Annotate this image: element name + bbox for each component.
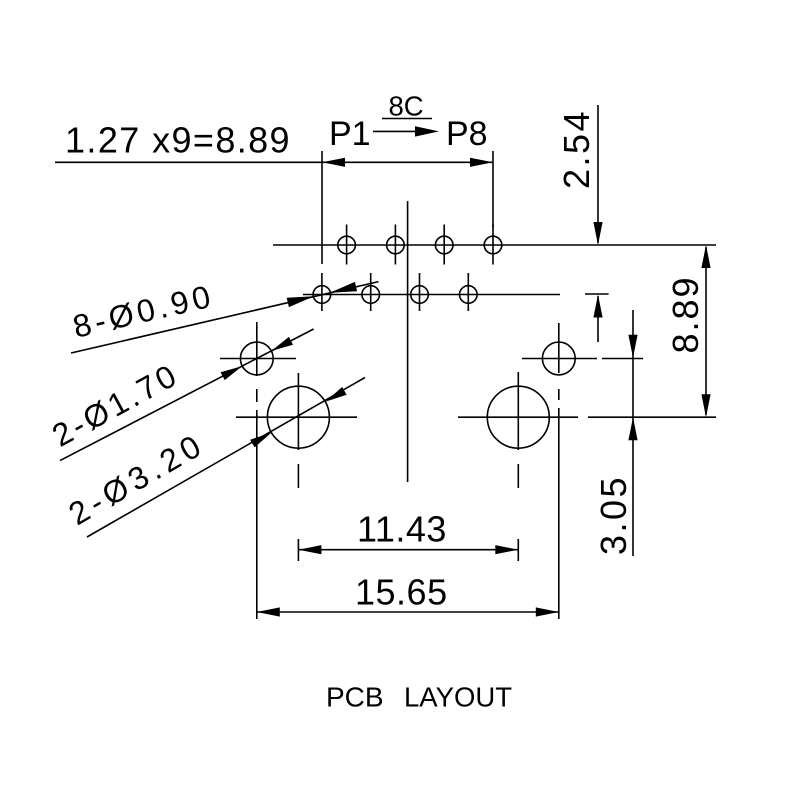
leader arrows at pin hole	[287, 282, 357, 307]
svg-text:8C: 8C	[389, 91, 424, 122]
underline 8C	[382, 118, 432, 120]
centerline left 1.70 hole vertical	[256, 322, 258, 619]
centerline right 1.70 hole vertical	[558, 323, 560, 619]
svg-text:1.27 x9=8.89: 1.27 x9=8.89	[65, 120, 291, 161]
hole P1 (0.90mm, bottom row)	[313, 273, 331, 311]
centerline 1.70mm holes left	[220, 358, 296, 360]
dimension line 1.27x9=8.89	[55, 158, 493, 167]
svg-text:LAYOUT: LAYOUT	[404, 682, 512, 713]
svg-text:P1: P1	[329, 115, 371, 153]
dimension line 3.05	[628, 310, 637, 556]
leader line 2-dia3.20	[87, 378, 365, 538]
svg-text:8.89: 8.89	[665, 275, 706, 353]
hole P7 (0.90mm, bottom row)	[460, 273, 478, 311]
hole right 1.70mm	[542, 342, 575, 375]
leader line 8-dia0.90	[71, 282, 379, 353]
hole P2 (0.90mm, top row)	[338, 225, 356, 265]
hole P6 (0.90mm, top row)	[435, 225, 453, 265]
svg-text:15.65: 15.65	[355, 572, 448, 613]
extension line P1 column	[321, 151, 323, 264]
dimension line 15.65	[257, 607, 559, 616]
hole left 3.20mm	[267, 386, 329, 448]
arrow P1 to P8	[373, 126, 439, 136]
centerline top pin row	[273, 244, 716, 246]
centerline right 3.20 hole vertical	[517, 372, 519, 561]
extension line P8 column	[492, 151, 494, 227]
hole P3 (0.90mm, bottom row)	[362, 273, 380, 311]
leader arrows at 1.70 hole	[221, 337, 293, 380]
centerline bottom pin row	[303, 293, 609, 296]
centerline 3.20mm holes left	[236, 416, 357, 418]
leader line 2-dia1.70	[60, 329, 314, 461]
svg-text:PCB: PCB	[326, 682, 384, 713]
hole P5 (0.90mm, bottom row)	[411, 273, 429, 311]
centerline 1.70mm holes right	[522, 358, 643, 360]
hole right 3.20mm	[487, 386, 549, 448]
centerline left 3.20 hole vertical	[297, 373, 299, 561]
svg-text:2-Ø1.70: 2-Ø1.70	[46, 356, 184, 454]
svg-text:P8: P8	[446, 115, 488, 153]
dimension line 2.54	[593, 105, 602, 342]
centerline 3.20mm holes right	[458, 416, 716, 418]
leader arrows at 3.20 hole	[250, 387, 346, 447]
hole P4 (0.90mm, top row)	[387, 225, 405, 265]
svg-text:3.05: 3.05	[593, 475, 634, 555]
hole P8 (0.90mm, top row)	[484, 225, 502, 265]
dimension line 11.43	[298, 545, 518, 554]
svg-text:11.43: 11.43	[357, 509, 447, 550]
svg-text:2.54: 2.54	[556, 109, 597, 189]
vertical centerline of connector	[407, 201, 409, 482]
dimension line 8.89	[701, 245, 710, 417]
svg-text:8-Ø0.90: 8-Ø0.90	[69, 277, 217, 344]
hole left 1.70mm	[240, 342, 273, 375]
